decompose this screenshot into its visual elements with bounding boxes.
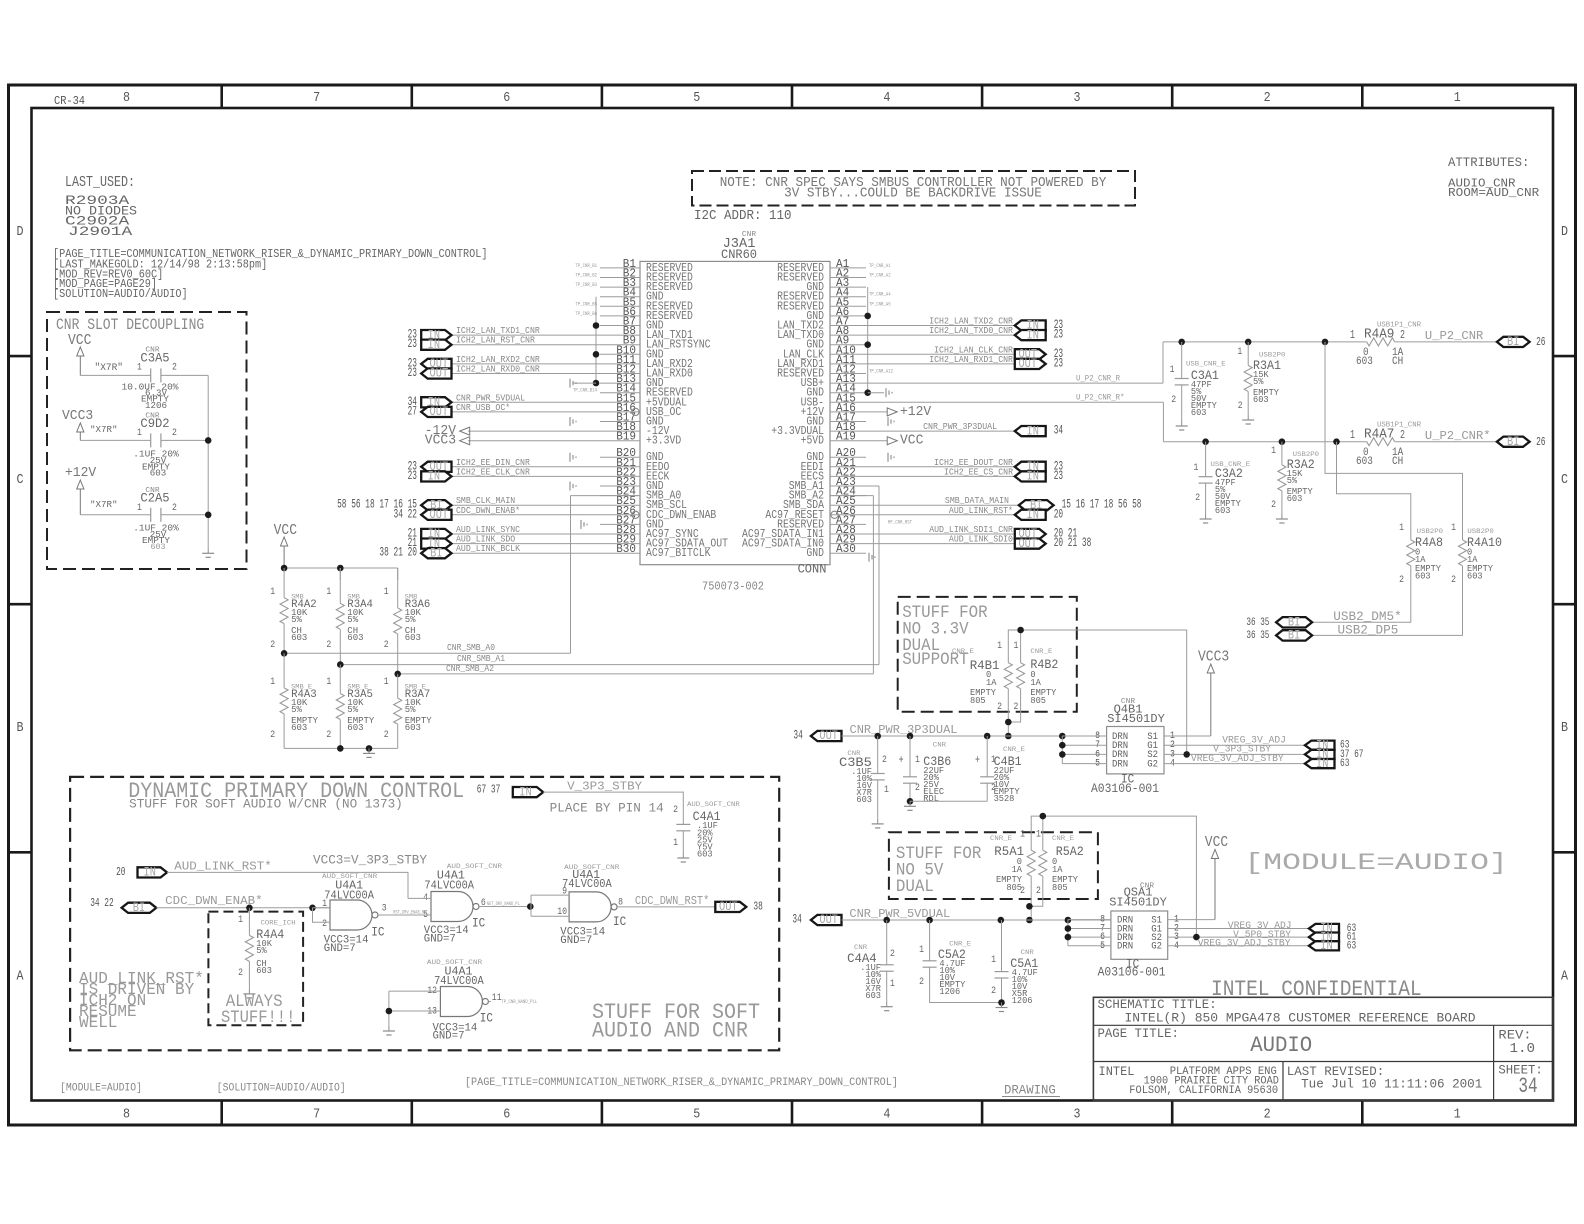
frame side ticks bbox=[9, 355, 32, 358]
svg-text:CONN: CONN bbox=[798, 562, 827, 577]
svg-text:1: 1 bbox=[1451, 522, 1456, 534]
svg-text:TP_CNR_B2: TP_CNR_B2 bbox=[575, 272, 597, 279]
svg-text:IN: IN bbox=[428, 337, 440, 352]
svg-text:VCC: VCC bbox=[900, 433, 923, 449]
svg-text:[MODULE=AUDIO]: [MODULE=AUDIO] bbox=[60, 1082, 142, 1094]
capacitor C4A4 bbox=[886, 920, 888, 965]
svg-text:74LVC00A: 74LVC00A bbox=[562, 877, 612, 891]
ground (R4A4) bbox=[248, 989, 250, 994]
svg-text:OUT: OUT bbox=[430, 507, 449, 522]
svg-text:603: 603 bbox=[1191, 408, 1207, 418]
svg-text:RDL: RDL bbox=[923, 794, 939, 804]
ground (C3B5) bbox=[877, 819, 879, 824]
svg-text:2: 2 bbox=[384, 639, 389, 651]
svg-text:[MODULE=AUDIO]: [MODULE=AUDIO] bbox=[1245, 850, 1508, 876]
resistor R3A6 bbox=[397, 568, 399, 608]
note box SMBUS dashed bbox=[692, 171, 1135, 206]
net flag AUD_LINK_SDI0 bbox=[866, 543, 1015, 545]
svg-text:ICH2_LAN_RST_CNR: ICH2_LAN_RST_CNR bbox=[456, 335, 535, 346]
wire USB2 DP5 riser from U_P2_CNR bbox=[1325, 342, 1463, 526]
svg-text:2: 2 bbox=[384, 729, 389, 741]
svg-text:1: 1 bbox=[1350, 329, 1355, 342]
net flag CDC_DWN_RST* (output) bbox=[715, 902, 746, 912]
svg-text:AUDIO AND CNR: AUDIO AND CNR bbox=[592, 1018, 748, 1044]
svg-text:1: 1 bbox=[1020, 829, 1025, 841]
capacitor C5A2 bbox=[929, 920, 931, 961]
svg-text:INTEL(R) 850 MPGA478 CUSTOMER: INTEL(R) 850 MPGA478 CUSTOMER REFERENCE … bbox=[1125, 1011, 1476, 1026]
svg-text:5%: 5% bbox=[1253, 377, 1264, 387]
svg-text:1: 1 bbox=[915, 754, 920, 766]
resistor R5A2 bbox=[1042, 838, 1044, 850]
svg-text:R4B1: R4B1 bbox=[970, 658, 1000, 673]
net flag ICH2_LAN_TXD1_CNR bbox=[452, 334, 601, 336]
svg-text:74LVC00A: 74LVC00A bbox=[424, 879, 474, 893]
svg-text:15 16 17 18 56 58: 15 16 17 18 56 58 bbox=[1062, 498, 1142, 512]
svg-text:+: + bbox=[975, 754, 980, 767]
svg-text:5%: 5% bbox=[347, 614, 358, 625]
net flag ICH2_LAN_CLK_CNR bbox=[866, 353, 1015, 355]
svg-text:D: D bbox=[1561, 224, 1568, 240]
svg-text:+12V: +12V bbox=[65, 465, 97, 481]
wire pullup top bus bbox=[284, 567, 398, 569]
svg-text:CNR60: CNR60 bbox=[721, 247, 757, 262]
net flag SMB_DATA_MAIN bbox=[866, 504, 1019, 506]
svg-text:603: 603 bbox=[1356, 356, 1373, 368]
svg-text:4: 4 bbox=[883, 90, 890, 106]
net flag ICH2_LAN_RXD1_CNR bbox=[866, 363, 1015, 365]
svg-text:2: 2 bbox=[172, 362, 177, 374]
svg-text:+12V: +12V bbox=[900, 404, 932, 420]
svg-text:[SOLUTION=AUDIO/AUDIO]: [SOLUTION=AUDIO/AUDIO] bbox=[217, 1082, 346, 1094]
svg-text:7: 7 bbox=[313, 90, 320, 106]
svg-text:R4A7: R4A7 bbox=[1364, 427, 1394, 443]
svg-text:IN: IN bbox=[1027, 327, 1039, 342]
svg-text:27: 27 bbox=[408, 404, 417, 418]
wires Q4B1 drain side bbox=[1062, 735, 1106, 737]
ground stub B27 bbox=[580, 520, 582, 529]
ground (C3A1) bbox=[1181, 421, 1183, 426]
svg-text:11: 11 bbox=[492, 992, 502, 1004]
svg-text:CH: CH bbox=[1392, 456, 1403, 468]
svg-text:1: 1 bbox=[1014, 640, 1019, 652]
svg-text:VCC: VCC bbox=[274, 523, 298, 539]
wire net CNR_SMB_A2 bbox=[830, 495, 873, 497]
net flag ICH2_LAN_RXD0_CNR bbox=[452, 373, 601, 375]
svg-text:1: 1 bbox=[1350, 429, 1355, 442]
net flag ICH2_LAN_RXD2_CNR bbox=[452, 363, 601, 365]
svg-text:CDC_DWN_RST*: CDC_DWN_RST* bbox=[635, 894, 709, 908]
svg-text:A: A bbox=[17, 968, 24, 984]
resistor R5A1 bbox=[1030, 838, 1032, 850]
resistor R4A7 bbox=[1365, 441, 1368, 443]
svg-text:8: 8 bbox=[123, 90, 130, 106]
svg-text:603: 603 bbox=[1215, 506, 1231, 516]
svg-text:TP_CNR_A4: TP_CNR_A4 bbox=[869, 291, 891, 298]
svg-text:ICH2_LAN_TXD0_CNR: ICH2_LAN_TXD0_CNR bbox=[929, 325, 1013, 336]
svg-text:A: A bbox=[1561, 968, 1568, 984]
resistor R4A10 bbox=[1462, 526, 1464, 540]
svg-text:CNR_E: CNR_E bbox=[1003, 746, 1025, 754]
wire C5A2 bottom to ground node bbox=[930, 980, 1002, 1003]
svg-text:603: 603 bbox=[1356, 456, 1373, 468]
net flag CNR_PWR_5VDUAL bbox=[452, 401, 601, 403]
svg-text:TP_CNR_B1: TP_CNR_B1 bbox=[575, 262, 597, 269]
net flag V_3P3_STBY (Q4B1) bbox=[1305, 750, 1335, 759]
svg-text:603: 603 bbox=[1467, 572, 1483, 582]
svg-text:1: 1 bbox=[890, 978, 895, 990]
svg-text:B19: B19 bbox=[616, 431, 636, 444]
svg-text:3528: 3528 bbox=[994, 794, 1015, 804]
wire CNR_PWR_3P3DUAL bus bbox=[842, 735, 1107, 737]
svg-text:ATTRIBUTES:: ATTRIBUTES: bbox=[1448, 156, 1529, 170]
svg-text:2: 2 bbox=[1020, 885, 1025, 897]
svg-text:2: 2 bbox=[1238, 400, 1243, 412]
svg-text:D: D bbox=[17, 224, 24, 240]
svg-text:CH: CH bbox=[1392, 356, 1403, 368]
svg-text:2: 2 bbox=[1271, 499, 1276, 511]
svg-text:IC: IC bbox=[472, 917, 485, 931]
ground (gate4 inputs) bbox=[388, 1026, 390, 1031]
svg-text:OUT: OUT bbox=[430, 366, 449, 381]
svg-text:G2: G2 bbox=[1151, 942, 1162, 953]
svg-text:603: 603 bbox=[291, 632, 307, 643]
svg-text:23: 23 bbox=[408, 366, 417, 380]
svg-text:CNR_E: CNR_E bbox=[1030, 648, 1052, 656]
svg-text:C3A5: C3A5 bbox=[140, 351, 169, 366]
net flag USB2_DP5 bbox=[1276, 630, 1312, 640]
connector J3A1 CNR60 outline bbox=[640, 261, 830, 564]
svg-text:TP_CNR_B14: TP_CNR_B14 bbox=[573, 387, 597, 394]
svg-text:GND=7: GND=7 bbox=[324, 943, 356, 955]
svg-text:603: 603 bbox=[405, 632, 421, 643]
svg-text:2: 2 bbox=[326, 639, 331, 651]
transistor Q4B1 SI4501DY bbox=[1107, 727, 1164, 774]
svg-text:IN: IN bbox=[144, 865, 156, 880]
svg-text:2: 2 bbox=[1036, 885, 1041, 897]
svg-text:GND=7: GND=7 bbox=[424, 933, 456, 945]
svg-text:C: C bbox=[1561, 472, 1568, 488]
svg-text:1: 1 bbox=[884, 784, 889, 796]
svg-text:U_P2_CNR_R*: U_P2_CNR_R* bbox=[1076, 393, 1124, 403]
svg-text:3: 3 bbox=[382, 903, 387, 915]
svg-text:1A: 1A bbox=[1052, 865, 1063, 875]
svg-text:B30: B30 bbox=[616, 543, 636, 556]
svg-text:AC97_BITCLK: AC97_BITCLK bbox=[646, 547, 711, 560]
ground bus right of connector (A3-A14) bbox=[867, 287, 869, 393]
wire to BI flag U_P2_CNR bbox=[1395, 341, 1497, 343]
svg-text:GND=7: GND=7 bbox=[433, 1031, 465, 1043]
svg-text:IN: IN bbox=[428, 469, 440, 484]
wire CNR_PWR_5VDUAL bus bbox=[842, 919, 1111, 921]
svg-text:V_3P3_STBY: V_3P3_STBY bbox=[567, 780, 643, 794]
svg-text:I2C ADDR: 110: I2C ADDR: 110 bbox=[694, 208, 792, 224]
svg-text:SI4501DY: SI4501DY bbox=[1109, 896, 1167, 910]
ground stub A17 bbox=[887, 417, 889, 426]
svg-text:BI: BI bbox=[1507, 334, 1519, 349]
svg-text:U_P2_CNR*: U_P2_CNR* bbox=[1425, 429, 1491, 443]
svg-text:TP_CNR_A2: TP_CNR_A2 bbox=[869, 272, 891, 279]
power tap VCC3 (B19) bbox=[468, 440, 600, 442]
svg-text:DUAL: DUAL bbox=[896, 878, 934, 897]
wire Q4B1 S2 V_3P3_STBY bbox=[1164, 753, 1305, 755]
svg-text:805: 805 bbox=[970, 696, 986, 706]
transistor QSA1 SI4501DY bbox=[1111, 911, 1168, 959]
dashed box STUFF FOR NO 5V DUAL bbox=[889, 832, 1098, 899]
svg-text:NET_DRV_NAND_PL: NET_DRV_NAND_PL bbox=[487, 901, 520, 907]
svg-text:VCC3=V_3P3_STBY: VCC3=V_3P3_STBY bbox=[313, 854, 427, 868]
svg-text:G2: G2 bbox=[1147, 759, 1158, 770]
svg-text:6: 6 bbox=[503, 90, 510, 106]
net flag CNR_PWR_3P3DUAL bbox=[866, 430, 1015, 432]
net flag AUD_LINK_RST* bbox=[866, 514, 1015, 516]
svg-text:5%: 5% bbox=[1287, 476, 1298, 486]
svg-text:6: 6 bbox=[481, 897, 486, 909]
svg-text:1: 1 bbox=[137, 427, 142, 439]
wire R4B1/R4B2 bottoms to 3P3DUAL bus bbox=[1008, 706, 1020, 722]
wire U_P2_CNR* bus bbox=[1163, 441, 1366, 443]
svg-text:1206: 1206 bbox=[145, 400, 167, 411]
svg-text:CR-34: CR-34 bbox=[54, 95, 85, 108]
svg-text:VCC: VCC bbox=[68, 333, 92, 349]
svg-text:2: 2 bbox=[915, 782, 920, 794]
svg-text:J2901A: J2901A bbox=[68, 224, 132, 239]
svg-text:1: 1 bbox=[1454, 90, 1461, 106]
svg-text:26: 26 bbox=[1536, 335, 1545, 349]
svg-text:20: 20 bbox=[1054, 507, 1063, 521]
ground (C4A4) bbox=[886, 1002, 888, 1007]
svg-text:TP_CNR_B6: TP_CNR_B6 bbox=[575, 310, 597, 317]
wire Q4B1 G2 VREG_3V_ADJ_STBY bbox=[1164, 763, 1305, 765]
svg-text:ICH2_EE_CLK_CNR: ICH2_EE_CLK_CNR bbox=[456, 466, 530, 477]
svg-text:3: 3 bbox=[1074, 1107, 1081, 1123]
svg-text:AUD_LINK_SDI0: AUD_LINK_SDI0 bbox=[949, 534, 1013, 545]
svg-text:603: 603 bbox=[856, 795, 872, 805]
svg-text:1: 1 bbox=[1170, 364, 1175, 376]
svg-text:1: 1 bbox=[919, 944, 924, 956]
svg-text:ROOM=AUD_CNR: ROOM=AUD_CNR bbox=[1448, 186, 1539, 200]
svg-text:9: 9 bbox=[562, 886, 567, 898]
svg-text:BI: BI bbox=[1288, 628, 1300, 643]
svg-text:1: 1 bbox=[1271, 445, 1276, 457]
svg-text:23: 23 bbox=[1054, 356, 1063, 370]
wire QSA1 G2 VREG_3V_ADJ_STBY bbox=[1168, 945, 1309, 947]
svg-text:VREG_3V_ADJ_STBY: VREG_3V_ADJ_STBY bbox=[1198, 939, 1291, 950]
svg-text:2: 2 bbox=[322, 918, 327, 930]
svg-text:805: 805 bbox=[1030, 696, 1046, 706]
svg-text:IN: IN bbox=[1320, 938, 1332, 953]
net flag ICH2_LAN_TXD0_CNR bbox=[866, 334, 1015, 336]
svg-text:36 35: 36 35 bbox=[1246, 630, 1269, 642]
power tap +12V (A16) bbox=[866, 411, 888, 413]
svg-text:IN: IN bbox=[1027, 423, 1039, 438]
svg-text:R5A2: R5A2 bbox=[1056, 844, 1084, 859]
svg-text:B: B bbox=[1561, 720, 1568, 736]
svg-text:2: 2 bbox=[1171, 394, 1176, 406]
svg-text:AUD_LINK_RST*: AUD_LINK_RST* bbox=[949, 505, 1013, 516]
svg-text:2: 2 bbox=[991, 782, 996, 794]
svg-text:1: 1 bbox=[137, 502, 142, 514]
svg-text:1: 1 bbox=[1454, 1107, 1461, 1123]
svg-text:VCC3: VCC3 bbox=[1198, 650, 1229, 666]
svg-text:C2A5: C2A5 bbox=[140, 491, 169, 506]
net flag AUD_LINK_SDI1_CNR bbox=[866, 533, 1015, 535]
svg-text:2: 2 bbox=[1399, 574, 1404, 586]
svg-text:5: 5 bbox=[693, 1107, 700, 1123]
svg-text:2: 2 bbox=[882, 754, 887, 766]
svg-text:2: 2 bbox=[172, 502, 177, 514]
wire AUD_LINK_RST* to gate2 pin4 bbox=[167, 872, 408, 898]
svg-text:TP_CNR_A12: TP_CNR_A12 bbox=[869, 368, 893, 375]
svg-text:U_P2_CNR_R: U_P2_CNR_R bbox=[1076, 374, 1120, 383]
svg-text:2: 2 bbox=[238, 967, 243, 979]
dashed box ALWAYS STUFF bbox=[208, 912, 303, 1026]
ground stub B23 bbox=[569, 482, 571, 491]
capacitor C4B1 electrolytic bbox=[986, 736, 988, 777]
svg-text:CNR_USB_OC*: CNR_USB_OC* bbox=[456, 402, 510, 413]
resistor R3A1 bbox=[1247, 342, 1249, 366]
ground (C3A2) bbox=[1205, 514, 1207, 519]
svg-text:2: 2 bbox=[890, 948, 895, 960]
svg-text:AUD_LINK_RST*: AUD_LINK_RST* bbox=[174, 860, 272, 874]
ground (pullup array) bbox=[368, 748, 370, 753]
svg-text:1A: 1A bbox=[1030, 678, 1041, 688]
svg-text:603: 603 bbox=[865, 991, 881, 1001]
svg-text:34: 34 bbox=[793, 729, 802, 743]
svg-text:7: 7 bbox=[313, 1107, 320, 1123]
svg-text:5%: 5% bbox=[347, 704, 358, 715]
ground symbol B13 bbox=[569, 379, 571, 388]
svg-text:2: 2 bbox=[1264, 1107, 1271, 1123]
svg-text:1: 1 bbox=[137, 362, 142, 374]
svg-text:R4A10: R4A10 bbox=[1467, 535, 1502, 550]
wires QSA1 drain side bbox=[1068, 919, 1111, 921]
net flag ICH2_EE_DIN_CNR bbox=[452, 466, 601, 468]
svg-text:IN: IN bbox=[1027, 507, 1039, 522]
svg-text:RF_CNR_RST: RF_CNR_RST bbox=[888, 518, 912, 525]
svg-text:8: 8 bbox=[123, 1107, 130, 1123]
svg-text:CNR SLOT DECOUPLING: CNR SLOT DECOUPLING bbox=[56, 316, 204, 334]
svg-text:5%: 5% bbox=[256, 946, 267, 956]
net flag ICH2_EE_CLK_CNR bbox=[452, 475, 601, 477]
svg-text:2: 2 bbox=[270, 639, 275, 651]
net flag VREG_3V_ADJ_STBY (Q4B1) bbox=[1305, 759, 1335, 768]
svg-text:CNR_E: CNR_E bbox=[990, 835, 1012, 843]
net flag AUD_LINK_BCLK bbox=[452, 552, 601, 554]
resistor R3A4 bbox=[339, 568, 341, 603]
svg-text:603: 603 bbox=[1287, 494, 1303, 504]
svg-text:A03106-001: A03106-001 bbox=[1091, 782, 1159, 796]
ground (R3A1) bbox=[1247, 415, 1249, 420]
svg-text:CNR_PWR_5VDUAL: CNR_PWR_5VDUAL bbox=[849, 907, 950, 921]
svg-text:34: 34 bbox=[1054, 424, 1063, 438]
svg-text:+5VD: +5VD bbox=[801, 435, 824, 448]
svg-text:1206: 1206 bbox=[939, 987, 960, 997]
svg-text:23: 23 bbox=[1054, 469, 1063, 483]
svg-text:1: 1 bbox=[326, 676, 331, 688]
svg-text:WELL: WELL bbox=[79, 1014, 117, 1033]
svg-text:1: 1 bbox=[384, 586, 389, 598]
wire USB- A15 net U_P2_CNR_R* bbox=[866, 401, 1163, 403]
svg-text:2: 2 bbox=[1451, 574, 1456, 586]
svg-text:A30: A30 bbox=[836, 543, 856, 556]
svg-text:3: 3 bbox=[1074, 90, 1081, 106]
svg-text:"X7R": "X7R" bbox=[95, 362, 124, 374]
wire V_3P3_STBY to C4A1 bbox=[543, 792, 683, 823]
svg-text:Tue Jul 10 11:11:06 2001: Tue Jul 10 11:11:06 2001 bbox=[1301, 1077, 1483, 1092]
svg-text:603: 603 bbox=[150, 467, 167, 478]
svg-text:6: 6 bbox=[503, 1107, 510, 1123]
net flag ICH2_EE_CS_CNR bbox=[866, 475, 1015, 477]
svg-text:1206: 1206 bbox=[1012, 996, 1033, 1006]
net flag U_P2_CNR bbox=[1497, 337, 1530, 347]
ground symbol A14 bbox=[885, 388, 887, 397]
net flag ICH2_EE_DOUT_CNR bbox=[866, 466, 1015, 468]
svg-text:CNR_PWR_3P3DUAL: CNR_PWR_3P3DUAL bbox=[850, 723, 958, 737]
wire Q4B1 S1 to VCC3 bbox=[1164, 735, 1211, 737]
resistor R4B1 bbox=[1007, 645, 1009, 663]
svg-text:603: 603 bbox=[697, 850, 713, 860]
resistor R4A4 bbox=[248, 908, 250, 936]
svg-text:2: 2 bbox=[991, 985, 996, 997]
net flag USB2_DM5* bbox=[1276, 617, 1312, 627]
svg-text:CDC_DWN_ENAB*: CDC_DWN_ENAB* bbox=[456, 505, 520, 516]
svg-text:TP_CNR_B3: TP_CNR_B3 bbox=[575, 281, 597, 288]
svg-text:"X7R": "X7R" bbox=[90, 424, 118, 435]
svg-text:2: 2 bbox=[1264, 90, 1271, 106]
connector pin bubbles (active low) bbox=[632, 408, 639, 415]
svg-text:1: 1 bbox=[673, 837, 678, 849]
svg-text:1: 1 bbox=[997, 640, 1002, 652]
svg-text:CNR_SMB_A2: CNR_SMB_A2 bbox=[446, 663, 494, 674]
svg-text:20: 20 bbox=[116, 865, 125, 879]
svg-text:2: 2 bbox=[1400, 429, 1405, 442]
svg-text:603: 603 bbox=[347, 632, 363, 643]
svg-text:B: B bbox=[17, 720, 24, 736]
resistor R3A5 bbox=[339, 665, 341, 694]
svg-text:1: 1 bbox=[991, 954, 996, 966]
svg-text:SI4501DY: SI4501DY bbox=[1107, 712, 1165, 726]
ground (R3A2) bbox=[1281, 514, 1283, 519]
svg-text:BI: BI bbox=[430, 545, 442, 560]
svg-text:GND=7: GND=7 bbox=[560, 935, 592, 947]
svg-text:IC: IC bbox=[480, 1012, 493, 1026]
svg-text:34: 34 bbox=[792, 913, 801, 927]
net flag AUD_LINK_SYNC bbox=[452, 533, 601, 535]
wire U_P2_CNR bus bbox=[1163, 341, 1366, 343]
svg-text:1: 1 bbox=[270, 586, 275, 598]
svg-text:IC: IC bbox=[613, 915, 626, 929]
svg-text:2: 2 bbox=[1400, 329, 1405, 342]
svg-text:R4A9: R4A9 bbox=[1364, 327, 1394, 343]
svg-text:CNR_E: CNR_E bbox=[1052, 835, 1074, 843]
capacitor C3A5 bbox=[80, 374, 150, 376]
svg-text:DRN: DRN bbox=[1112, 759, 1128, 770]
resistor R3A7 bbox=[397, 674, 399, 698]
resistor R4A2 bbox=[283, 568, 285, 598]
svg-text:3V STBY...COULD BE BACKDRIVE I: 3V STBY...COULD BE BACKDRIVE ISSUE bbox=[784, 187, 1042, 202]
svg-text:CNR: CNR bbox=[933, 742, 946, 750]
wire CDC_DWN_ENAB* bbox=[156, 907, 330, 909]
wire R5A1/R5A2 tops to V_5P0_STBY bbox=[1031, 816, 1196, 937]
resistor R4A3 bbox=[283, 653, 285, 688]
svg-text:"X7R": "X7R" bbox=[90, 499, 118, 510]
svg-text:IC: IC bbox=[371, 926, 384, 940]
wire decoupling right bus bbox=[207, 375, 209, 548]
svg-text:OUT: OUT bbox=[430, 404, 449, 419]
svg-text:2: 2 bbox=[919, 976, 924, 988]
net flag CDC_DWN_ENAB* bbox=[452, 514, 601, 516]
resistor R4A9 bbox=[1365, 341, 1368, 343]
